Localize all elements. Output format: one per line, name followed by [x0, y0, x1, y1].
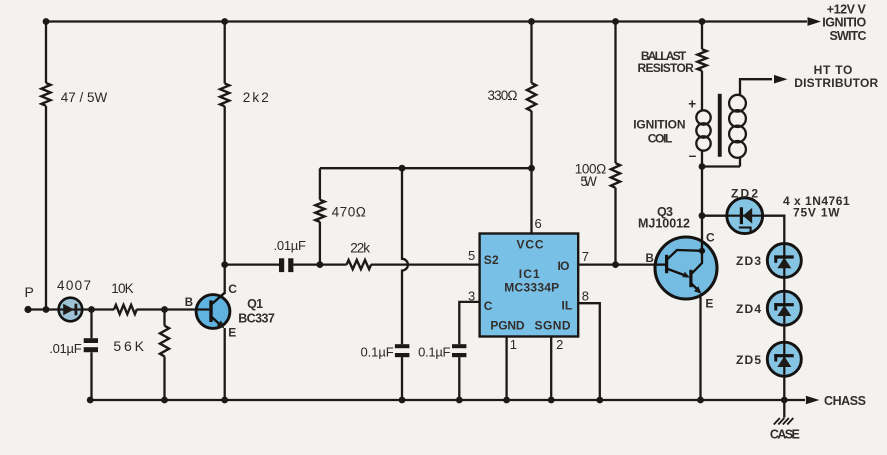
- svg-text:2: 2: [556, 337, 563, 352]
- svg-text:IGNITIO: IGNITIO: [822, 16, 866, 30]
- svg-text:+12V V: +12V V: [827, 2, 867, 16]
- svg-text:56K: 56K: [113, 338, 144, 354]
- svg-text:IC1: IC1: [519, 267, 540, 281]
- svg-text:BC337: BC337: [238, 312, 275, 326]
- svg-text:VCC: VCC: [517, 238, 544, 252]
- svg-text:B: B: [185, 297, 193, 309]
- svg-text:75V 1W: 75V 1W: [793, 206, 840, 220]
- svg-text:SWITC: SWITC: [830, 29, 867, 43]
- svg-text:SGND: SGND: [535, 319, 571, 333]
- svg-text:HT TO: HT TO: [814, 63, 853, 77]
- svg-text:+: +: [688, 97, 696, 112]
- svg-text:PGND: PGND: [490, 319, 525, 333]
- svg-text:C: C: [706, 230, 715, 244]
- svg-text:IO: IO: [558, 259, 570, 273]
- svg-text:2k2: 2k2: [243, 90, 269, 105]
- svg-text:DISTRIBUTOR: DISTRIBUTOR: [794, 76, 878, 90]
- svg-text:–: –: [689, 148, 697, 163]
- svg-text:1: 1: [510, 337, 517, 352]
- svg-text:4007: 4007: [57, 278, 91, 293]
- svg-text:CASE: CASE: [770, 428, 800, 442]
- svg-text:ZD4: ZD4: [736, 302, 761, 316]
- svg-text:C: C: [484, 299, 493, 313]
- svg-text:IGNITION: IGNITION: [633, 117, 685, 131]
- svg-text:E: E: [705, 296, 713, 310]
- svg-text:MJ10012: MJ10012: [638, 217, 690, 231]
- svg-text:470Ω: 470Ω: [332, 205, 366, 220]
- svg-text:10K: 10K: [111, 281, 133, 296]
- svg-text:5: 5: [468, 248, 475, 263]
- svg-text:7: 7: [582, 249, 589, 264]
- svg-text:E: E: [228, 325, 236, 339]
- svg-text:ZD5: ZD5: [736, 353, 761, 367]
- svg-text:ZD3: ZD3: [736, 254, 761, 268]
- svg-text:CHASS: CHASS: [824, 394, 866, 408]
- svg-text:RESISTOR: RESISTOR: [638, 61, 695, 75]
- svg-text:0.1µF: 0.1µF: [361, 345, 394, 360]
- svg-text:S2: S2: [484, 253, 499, 267]
- svg-text:ZD2: ZD2: [731, 187, 758, 201]
- svg-text:IL: IL: [562, 299, 573, 313]
- svg-text:P: P: [25, 284, 34, 300]
- svg-text:.01µF: .01µF: [49, 341, 82, 356]
- svg-text:8: 8: [582, 288, 589, 303]
- svg-text:47 / 5W: 47 / 5W: [61, 90, 108, 105]
- svg-text:B: B: [646, 253, 654, 265]
- svg-text:C: C: [228, 282, 237, 296]
- svg-text:6: 6: [535, 216, 542, 231]
- svg-text:.01µF: .01µF: [274, 238, 307, 253]
- svg-text:MC3334P: MC3334P: [504, 280, 559, 294]
- svg-text:330Ω: 330Ω: [488, 88, 518, 103]
- svg-text:0.1µF: 0.1µF: [418, 345, 450, 360]
- svg-text:22k: 22k: [350, 241, 370, 256]
- svg-text:Q1: Q1: [247, 297, 263, 311]
- svg-text:3: 3: [468, 288, 475, 303]
- svg-text:5W: 5W: [580, 174, 597, 189]
- svg-text:COIL: COIL: [648, 131, 673, 145]
